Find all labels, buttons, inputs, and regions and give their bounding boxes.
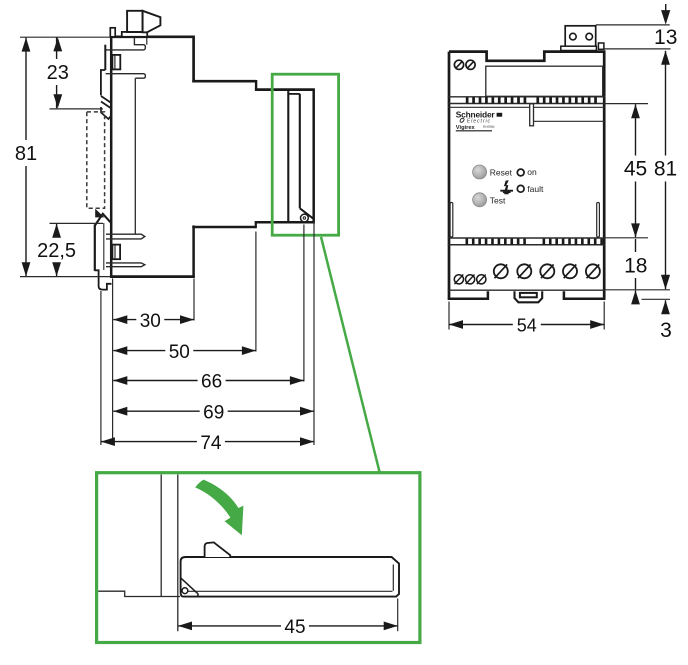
svg-text:81: 81 [654, 158, 677, 181]
dimension 54 [449, 302, 604, 336]
dimension 3 [606, 275, 672, 342]
side view: dashed rectangle (rail zone) [87, 112, 105, 208]
svg-text:13: 13 [654, 26, 677, 49]
dimension 69 [113, 410, 199, 412]
front view: five terminal screws [494, 264, 600, 278]
svg-text:45: 45 [624, 158, 647, 181]
front view: upper terminal comb row [448, 97, 606, 104]
detail: lever top tab [205, 542, 231, 557]
dimension 81 (left) [15, 37, 110, 276]
side view: lower slot pair with pointed tips [106, 234, 145, 267]
dimension 23 [47, 37, 103, 109]
svg-text:74: 74 [200, 433, 222, 454]
svg-text:30: 30 [140, 311, 161, 332]
dimension 50 [113, 350, 165, 352]
front view: lower terminal comb row [448, 238, 606, 245]
dimension 30 [113, 319, 136, 321]
side view: small tooth above top edge [110, 28, 115, 37]
front view: center hanger bar [530, 104, 605, 126]
side view: button stem inner line [146, 38, 148, 45]
front view: Test button [473, 193, 506, 207]
green leader line to detail box [321, 237, 380, 473]
svg-text:3: 3 [660, 319, 672, 342]
front view: Reset button [473, 165, 513, 179]
side view: inner vertical body line [134, 78, 136, 234]
svg-text:RH99M: RH99M [483, 125, 495, 129]
dimension 13 [596, 4, 678, 49]
side view: upper DIN spring hatching [101, 96, 111, 119]
side view: upper slot pair with rounded tips [106, 38, 146, 78]
dimension 45 (right) [606, 104, 649, 238]
svg-text:Test: Test [490, 196, 506, 206]
dimension 81 (right) [665, 51, 667, 156]
front view: body outline with top notch [448, 52, 606, 299]
side view: upper-left step profile [101, 45, 105, 96]
svg-text:22,5: 22,5 [37, 240, 76, 262]
svg-text:on: on [527, 167, 537, 177]
svg-text:50: 50 [169, 342, 190, 363]
svg-text:54: 54 [517, 316, 537, 336]
side view: test button on top [122, 11, 161, 37]
dimension 74 [101, 441, 197, 443]
side view: lower DIN clip [95, 209, 112, 290]
detail: sealing lever [181, 557, 399, 597]
side view: device body outline [110, 36, 315, 278]
front view: two sealing screws top-left [454, 60, 475, 69]
svg-text:81: 81 [15, 143, 37, 165]
side view: lower window rectangle [112, 245, 120, 260]
front view: bottom DIN clip tab [515, 291, 543, 302]
front view: Schneider Electric logo [456, 109, 502, 124]
detail green frame [97, 473, 420, 643]
svg-text:69: 69 [203, 402, 224, 423]
front view: on LED [517, 167, 537, 177]
front view: side grooves [450, 203, 599, 238]
front view: Vigirex label [456, 125, 495, 131]
svg-text:Reset: Reset [490, 167, 513, 177]
detail: green rotation arrow [195, 480, 243, 536]
svg-text:45: 45 [284, 617, 305, 638]
detail: rail wall lines [98, 475, 180, 632]
dimension 45 (detail) [178, 599, 398, 639]
front view: three small screws [454, 275, 486, 285]
dimension 18 [624, 239, 647, 304]
front view: top mounting clip with two holes [561, 26, 604, 51]
front view: terminal cover plate [486, 66, 603, 96]
svg-text:Electric: Electric [467, 118, 491, 124]
front view: fault LED [517, 184, 544, 194]
extension lines below side view [101, 222, 314, 445]
side view: upper window rectangle [112, 55, 120, 70]
front view: face split line [448, 106, 606, 108]
svg-text:23: 23 [47, 62, 69, 84]
dimension 66 [113, 380, 197, 382]
svg-text:fault: fault [527, 184, 544, 194]
svg-text:66: 66 [201, 372, 222, 393]
svg-text:18: 18 [624, 255, 647, 278]
detail: lever pivot boss [182, 588, 188, 594]
front view: test lightning + earth symbol [500, 180, 513, 193]
dimension 22,5 [37, 223, 103, 276]
side view: sealable lever (right side) [288, 90, 313, 222]
green zoom frame on lever [272, 74, 338, 235]
